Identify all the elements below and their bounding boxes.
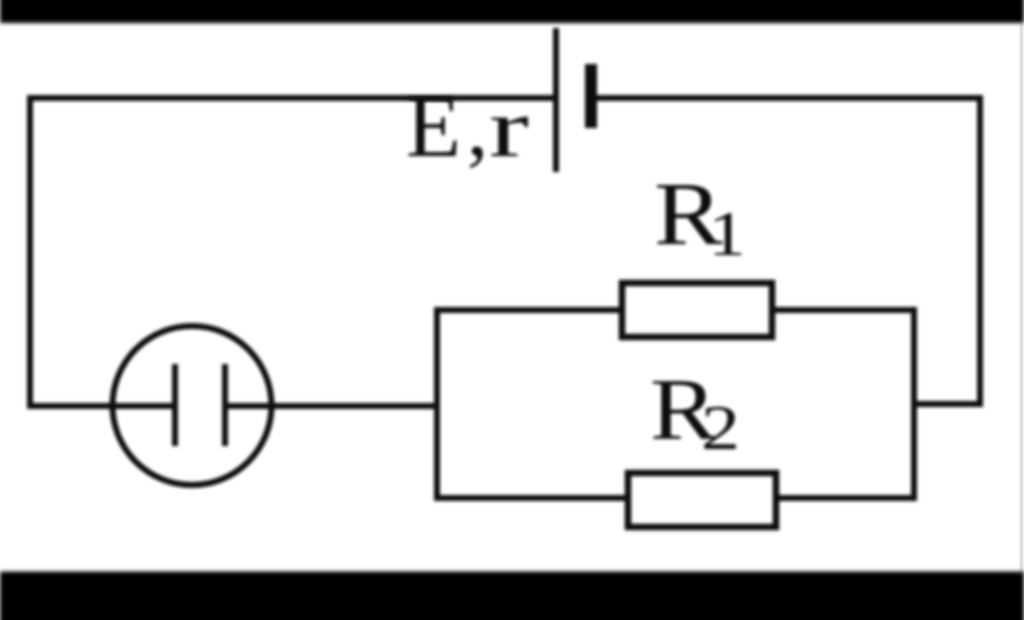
wire top-right horizontal (597, 98, 980, 404)
wire from capacitor to parallel network (228, 403, 437, 409)
wire top-left horizontal (30, 98, 556, 406)
node left rail (434, 307, 440, 501)
svg-text:E: E (406, 77, 461, 176)
resistor R2 (628, 473, 776, 527)
svg-text:2: 2 (701, 392, 740, 463)
battery E,r long plate (553, 28, 559, 172)
svg-text:1: 1 (708, 198, 746, 269)
capacitor right plate (222, 364, 228, 446)
bottom letterbox bar (0, 572, 1024, 620)
svg-text:r: r (489, 82, 529, 175)
resistor R1 (622, 283, 772, 337)
wire R2 left (434, 495, 625, 501)
svg-text:,: , (467, 81, 488, 174)
node right rail (911, 307, 917, 501)
wire R1 right (772, 307, 914, 313)
wire R1 left (434, 307, 619, 313)
right page edge gray line (1020, 23, 1023, 572)
wire R2 right (776, 495, 914, 501)
battery E,r short thick plate (585, 64, 597, 128)
lamp/capacitor circle (113, 326, 272, 485)
top letterbox bar (0, 0, 1024, 23)
capacitor left plate (172, 364, 178, 446)
